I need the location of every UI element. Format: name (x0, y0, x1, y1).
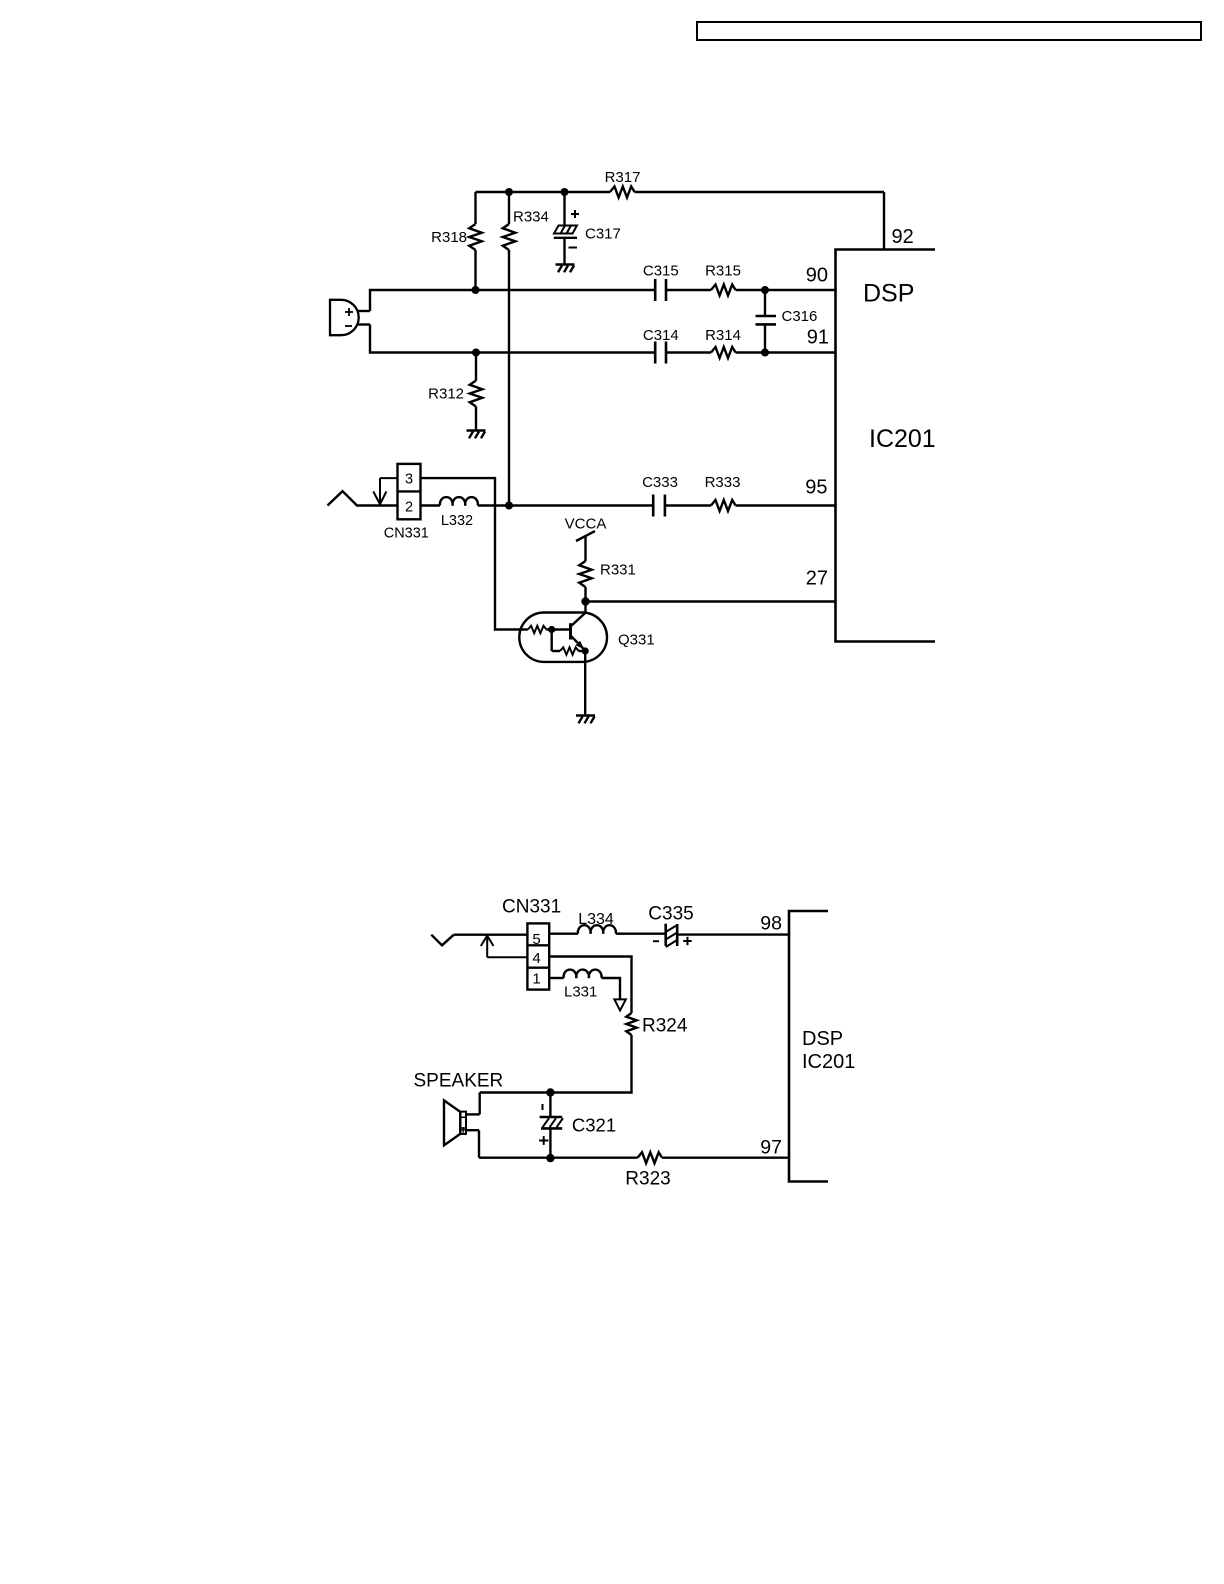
resistor R318 (431, 192, 482, 290)
resistor R323 (625, 1152, 670, 1189)
wire Q331 emitter to ground (584, 651, 586, 716)
svg-text:DSP: DSP (863, 280, 914, 308)
svg-text:C317: C317 (585, 226, 621, 243)
capacitor C315 (643, 263, 679, 301)
svg-text:VCCA: VCCA (565, 515, 607, 532)
svg-text:R333: R333 (705, 474, 741, 491)
input jack stub (lower) (431, 935, 454, 946)
svg-text:5: 5 (532, 931, 540, 948)
ground (Q331) (576, 716, 595, 724)
title box (697, 22, 1201, 40)
svg-text:R314: R314 (705, 327, 741, 344)
wire L332 to C333 (pin 95 net) (478, 504, 836, 506)
node dot R331/pin27 (581, 597, 589, 605)
wire mic- to pin 91 (370, 325, 836, 353)
capacitor C321 (electrolytic) (539, 1088, 616, 1162)
svg-text:2: 2 (405, 499, 413, 515)
wire R324 to C321 node (480, 1035, 632, 1093)
wire pin 27 (586, 600, 836, 602)
svg-text:CN331: CN331 (384, 525, 429, 541)
svg-text:1: 1 (532, 970, 540, 987)
wire jack to CN331 pin 2 (356, 504, 397, 506)
resistor R334 (503, 192, 549, 506)
svg-text:Q331: Q331 (618, 632, 655, 649)
svg-text:R315: R315 (705, 263, 741, 280)
resistor R333 (705, 474, 741, 511)
capacitor C316 (756, 286, 818, 357)
svg-text:95: 95 (805, 477, 827, 499)
node dot R318/mic+ rail (472, 286, 480, 294)
node dot R334/top rail (505, 188, 513, 196)
svg-text:SPEAKER: SPEAKER (414, 1071, 504, 1092)
ground (C317) (556, 265, 575, 273)
node dot C317/top rail (561, 188, 569, 196)
IC201 DSP box (upper) (836, 250, 936, 642)
resistor R324 (626, 1013, 688, 1037)
resistor R312 (428, 353, 482, 431)
svg-text:R331: R331 (600, 562, 636, 579)
svg-text:27: 27 (806, 568, 828, 590)
svg-text:C315: C315 (643, 263, 679, 280)
svg-text:R324: R324 (642, 1016, 688, 1037)
transistor Q331 (digital) (519, 613, 654, 662)
svg-text:97: 97 (760, 1137, 782, 1159)
svg-text:4: 4 (532, 950, 540, 967)
wire mic+ to pin 90 (370, 290, 836, 311)
svg-text:3: 3 (405, 471, 413, 487)
pin 92 (884, 192, 914, 250)
resistor R317 (605, 169, 641, 198)
speaker (444, 1093, 480, 1158)
svg-text:R323: R323 (625, 1169, 670, 1190)
wire CN331 pin 4 to R324 (549, 957, 631, 1014)
wire jack to CN331 pin 5 (454, 934, 528, 936)
svg-text:IC201: IC201 (869, 425, 936, 453)
svg-text:R312: R312 (428, 386, 464, 403)
resistor R314 (705, 327, 741, 358)
svg-text:L334: L334 (578, 911, 614, 928)
wire L334 to C335 (616, 933, 666, 935)
wire pin 98 (677, 933, 789, 935)
wire top rail R317 net (476, 191, 885, 193)
svg-text:C314: C314 (643, 327, 679, 344)
input jack stub (upper) (328, 491, 358, 505)
jack switch arrow (upper) (373, 478, 397, 504)
capacitor C333 (642, 474, 678, 517)
connector CN331 (upper) (384, 464, 429, 541)
svg-text:C335: C335 (648, 904, 693, 925)
svg-text:92: 92 (892, 226, 914, 248)
wire speaker- to R323 (pin 97 net) (479, 1156, 789, 1158)
node dot R312/mic- rail (472, 349, 480, 357)
capacitor C335 (electrolytic) (648, 904, 693, 948)
resistor R315 (705, 263, 741, 296)
svg-text:R318: R318 (431, 229, 467, 246)
wire L331 to open contact (602, 978, 621, 999)
svg-text:L332: L332 (441, 513, 473, 529)
svg-text:90: 90 (806, 265, 828, 287)
svg-text:91: 91 (807, 327, 829, 349)
capacitor C317 (electrolytic) (554, 192, 621, 265)
inductor L331 (pin 1) (549, 970, 601, 1001)
svg-text:L331: L331 (564, 983, 597, 1000)
wire CN331 pin 3 to Q331 base (421, 478, 528, 629)
svg-text:98: 98 (760, 913, 782, 935)
svg-text:IC201: IC201 (802, 1051, 855, 1073)
open arrow contact (614, 999, 625, 1010)
svg-text:DSP: DSP (802, 1028, 843, 1050)
capacitor C314 (643, 327, 679, 364)
svg-text:CN331: CN331 (502, 896, 561, 917)
svg-text:R317: R317 (605, 169, 641, 186)
svg-text:C316: C316 (782, 308, 818, 325)
node dot pin95/R334 junction (505, 502, 513, 510)
DSP IC201 box (lower) (789, 911, 828, 1182)
resistor R331 (579, 536, 636, 613)
svg-text:C321: C321 (572, 1115, 616, 1136)
VCCA power (565, 515, 607, 541)
jack switch arrow (lower) (481, 936, 528, 958)
svg-text:C333: C333 (642, 474, 678, 491)
connector CN331 (lower) (502, 896, 561, 989)
svg-text:R334: R334 (513, 209, 549, 226)
ground (R312) (467, 431, 486, 439)
microphone (330, 300, 370, 335)
inductor L334 (549, 911, 616, 934)
inductor L332 (421, 497, 478, 529)
